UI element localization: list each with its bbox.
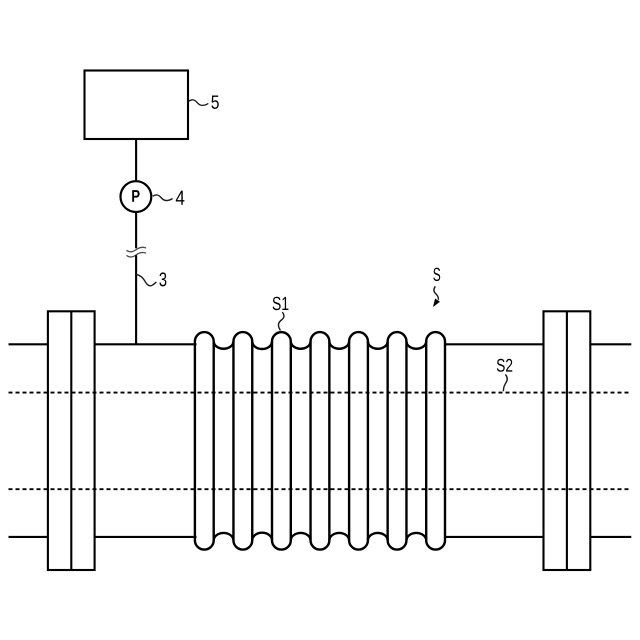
pipe bottom line left segment	[9, 536, 48, 538]
bellows convolution 6	[388, 332, 407, 550]
pipe bottom line flange-to-bellows	[95, 536, 197, 538]
right flange pair	[544, 311, 591, 570]
bellows bottom valley 6-7	[406, 533, 426, 540]
label S1 leader	[278, 312, 284, 330]
pipe top line bellows-to-flange	[445, 343, 544, 345]
bellows bottom valley 3-4	[291, 533, 311, 540]
pipe top line left segment	[9, 343, 48, 345]
bellows convolution 3	[272, 332, 291, 549]
label S arrowhead	[434, 299, 439, 306]
wire from gauge 4 down to break	[135, 212, 137, 249]
pipe bottom line right segment	[590, 536, 631, 538]
label S2	[497, 359, 513, 372]
bellows convolution 1	[195, 332, 214, 549]
bellows top valley 3-4	[291, 342, 311, 349]
bellows convolution 7	[426, 332, 445, 549]
bellows top valley 6-7	[406, 342, 426, 349]
right flange joint line	[566, 311, 568, 570]
label S	[433, 268, 440, 281]
label 5	[211, 96, 218, 109]
bellows top valley 5-6	[368, 342, 388, 349]
pipe break symbol lower wave	[127, 252, 147, 257]
bellows bottom valley 2-3	[252, 533, 272, 541]
pipe bottom line bellows-to-flange	[445, 536, 544, 538]
lower dashed axis line	[9, 488, 632, 490]
pipe break symbol upper wave	[127, 247, 147, 252]
wire 3 from break down to pipe	[135, 255, 137, 344]
upper dashed axis line	[9, 392, 632, 394]
label 5 leader	[189, 100, 208, 106]
left flange pair	[48, 311, 95, 570]
label 3 leader	[136, 274, 156, 285]
bellows top valley 1-2	[214, 342, 234, 349]
label S leader	[434, 286, 438, 300]
label S2 leader	[503, 374, 507, 391]
label 3	[159, 272, 166, 286]
left flange joint line	[70, 311, 72, 570]
bellows bottom valley 1-2	[214, 533, 234, 540]
label 4	[176, 191, 185, 205]
pressure gauge circle 4	[120, 181, 151, 212]
bellows bottom valley 5-6	[368, 533, 388, 540]
bellows top valley 2-3	[252, 342, 272, 350]
label S1	[273, 297, 289, 311]
wire from box 5 to gauge 4	[135, 139, 137, 182]
pipe top line flange-to-bellows	[95, 343, 197, 345]
box unit 5	[85, 71, 189, 140]
gauge letter P	[132, 190, 139, 202]
bellows convolution 2	[233, 332, 252, 549]
bellows convolution 4	[311, 332, 330, 550]
bellows bottom valley 4-5	[329, 533, 349, 540]
bellows convolution 5	[349, 332, 368, 549]
label 4 leader	[153, 195, 173, 201]
pipe top line right segment	[590, 343, 631, 345]
bellows top valley 4-5	[329, 342, 349, 349]
